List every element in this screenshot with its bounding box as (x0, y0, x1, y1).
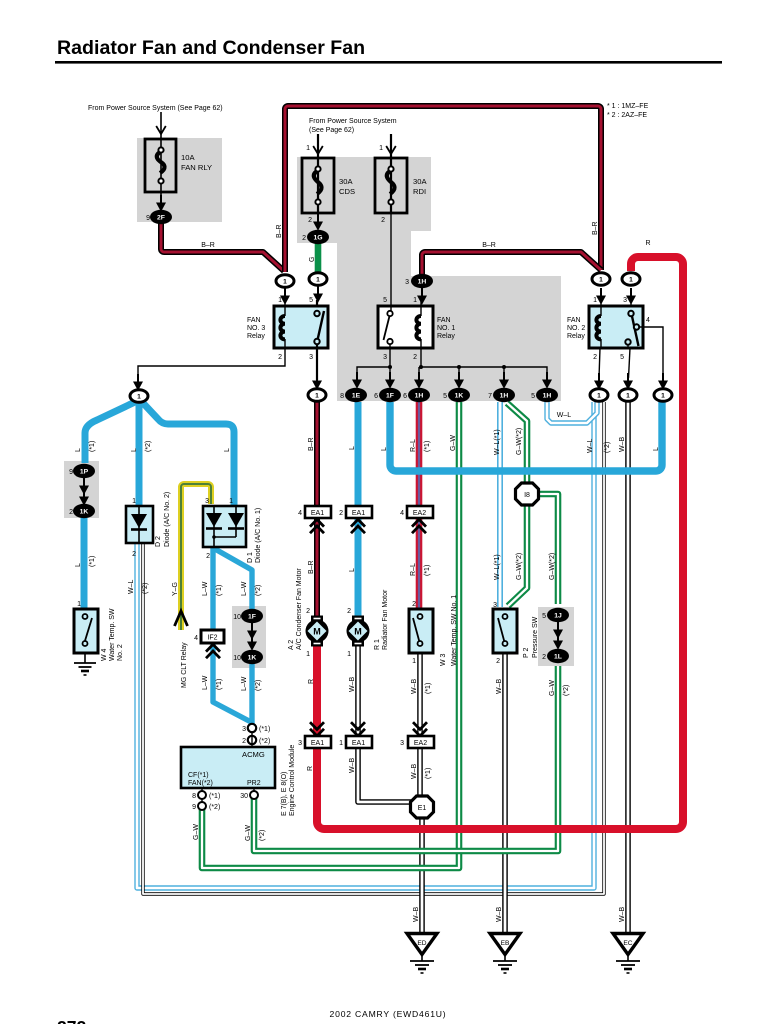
wire: FAN NO.3 pin3 down (312, 348, 322, 390)
shaded block: fuse/relay harness area (297, 157, 561, 401)
svg-text:G–W(*2): G–W(*2) (516, 428, 523, 455)
svg-text:No. 2: No. 2 (117, 644, 124, 661)
ground EB (490, 934, 520, 974)
svg-text:4: 4 (400, 510, 404, 517)
svg-text:RDI: RDI (413, 187, 426, 196)
diode D1 (A/C No.1) (203, 506, 246, 547)
connector 1K pin5 (448, 388, 470, 402)
wire: FAN NO.1 pin2 branch to 1H/1K/1H/1H (414, 348, 552, 389)
svg-text:R: R (307, 766, 314, 771)
rotated component names (101, 492, 539, 816)
svg-text:2: 2 (412, 601, 416, 608)
svg-text:10: 10 (233, 655, 241, 662)
svg-text:W–L: W–L (557, 412, 572, 419)
svg-text:W–B: W–B (349, 758, 356, 774)
connector 1H pin5 (536, 388, 558, 402)
svg-text:Relay: Relay (437, 333, 455, 340)
junction I8 (516, 483, 539, 505)
svg-text:(*2): (*2) (209, 804, 220, 811)
wire W-L (*2) loop: FAN NO.2 relay pin2 to diode D2 (137, 402, 604, 894)
svg-text:1: 1 (137, 394, 141, 401)
svg-text:(*1): (*1) (425, 683, 432, 694)
wire L-W (*1): diode D1 via IF2 to ACMG pin3 (213, 546, 251, 722)
wire L (*2 branch): node to diode D2 (136, 401, 143, 506)
svg-text:3: 3 (623, 297, 627, 304)
svg-text:L–W: L–W (202, 581, 209, 596)
wire G-W: connector 1K to ACMG pins 8/9 (202, 402, 459, 868)
svg-text:3: 3 (493, 602, 497, 609)
svg-text:1: 1 (413, 297, 417, 304)
fuse 30A CDS (302, 158, 334, 214)
svg-text:D 2: D 2 (155, 536, 162, 547)
switch W3 water temp SW no.1 (409, 609, 433, 653)
svg-text:W–L: W–L (128, 580, 135, 595)
svg-text:NO. 1: NO. 1 (437, 325, 455, 332)
svg-text:G–W(*2): G–W(*2) (516, 553, 523, 580)
svg-text:W–B: W–B (619, 437, 626, 453)
svg-text:1: 1 (597, 393, 601, 400)
svg-text:Radiator Fan Motor: Radiator Fan Motor (382, 589, 389, 650)
svg-text:(*2): (*2) (259, 830, 266, 841)
svg-text:R–L: R–L (410, 563, 417, 576)
svg-text:A/C Condenser Fan Motor: A/C Condenser Fan Motor (296, 568, 303, 650)
connector EA1 pin1 (bottom) (346, 722, 372, 748)
svg-text:EA1: EA1 (352, 740, 365, 747)
svg-text:Radiator Fan and Condenser Fan: Radiator Fan and Condenser Fan (57, 37, 365, 59)
connector pair 1P/1K (73, 464, 95, 518)
svg-text:1: 1 (629, 277, 633, 284)
svg-text:G–W: G–W (193, 824, 200, 840)
svg-text:D 1: D 1 (247, 552, 254, 563)
svg-text:(*2): (*2) (145, 441, 152, 452)
svg-text:1: 1 (229, 498, 233, 505)
diode D2 (A/C No.2) (126, 506, 153, 543)
svg-text:30A: 30A (339, 177, 353, 186)
wire L: node to diode D1 pin1 (143, 403, 234, 506)
connector 1F (379, 388, 401, 402)
connector EA2 pin3 (bottom) (408, 722, 434, 748)
svg-text:1L: 1L (554, 654, 562, 661)
svg-text:* 2 : 2AZ–FE: * 2 : 2AZ–FE (607, 112, 647, 119)
svg-text:Pressure SW: Pressure SW (532, 616, 539, 658)
svg-text:6: 6 (403, 393, 407, 400)
wire Y-G: MG CLT relay to diode D1 pin3 (181, 484, 211, 630)
svg-text:1: 1 (661, 393, 665, 400)
svg-text:1: 1 (379, 145, 383, 152)
svg-text:L: L (131, 448, 138, 452)
svg-text:I8: I8 (524, 492, 530, 499)
svg-text:(*2): (*2) (142, 583, 149, 594)
svg-text:1: 1 (339, 740, 343, 747)
svg-text:FAN: FAN (567, 317, 581, 324)
svg-text:Water Temp. SW: Water Temp. SW (109, 608, 116, 661)
svg-text:CDS: CDS (339, 187, 355, 196)
svg-text:(*1): (*1) (259, 726, 270, 733)
svg-text:W–B: W–B (496, 679, 503, 695)
svg-text:L: L (381, 447, 388, 451)
svg-text:4: 4 (194, 635, 198, 642)
svg-text:Water Temp. SW No. 1: Water Temp. SW No. 1 (451, 595, 458, 666)
svg-text:G–W: G–W (245, 825, 252, 841)
connector 1H pin7 (493, 388, 515, 402)
svg-text:1H: 1H (543, 393, 552, 400)
rotated wire labels (75, 221, 660, 922)
svg-text:B–R: B–R (201, 242, 215, 249)
svg-text:2: 2 (132, 551, 136, 558)
svg-text:5: 5 (531, 393, 535, 400)
svg-text:W–L(*1): W–L(*1) (494, 554, 501, 580)
wire B-R: fuse 10A FAN RLY to FAN NO.3 relay pin1 (161, 222, 284, 271)
annotation arrow: MG CLT relay (175, 611, 188, 626)
svg-text:10: 10 (233, 614, 241, 621)
svg-text:R: R (308, 679, 315, 684)
svg-text:1E: 1E (352, 393, 361, 400)
svg-text:(*2): (*2) (604, 442, 611, 453)
svg-text:2: 2 (306, 608, 310, 615)
svg-text:3: 3 (205, 498, 209, 505)
wire B-R: FAN NO.3 pin3 to A/C condenser fan motor (314, 402, 320, 616)
wire W-L (*1): connector 1H to pressure SW pin3 (497, 402, 503, 607)
svg-text:2: 2 (302, 235, 306, 242)
wire W-B: radiator fan motor to E1 (358, 643, 411, 802)
svg-text:2: 2 (542, 654, 546, 661)
svg-text:1: 1 (347, 651, 351, 658)
svg-text:1J: 1J (554, 613, 562, 620)
svg-text:W 3: W 3 (440, 653, 447, 666)
svg-text:PR2: PR2 (247, 780, 261, 787)
wire W-B: E1 to ground ED (419, 818, 425, 934)
wire B-R: branch to FAN NO.1 relay pin1 (422, 252, 601, 274)
connector 1H pin3 (FAN NO.1 pin1) (411, 274, 433, 305)
svg-text:L: L (75, 448, 82, 452)
wires: FAN NO.2 pins 2,5 down (594, 348, 633, 390)
node: FAN NO.3 pin5 connector (309, 273, 327, 303)
node: FAN NO.2 pin3 connector (622, 273, 640, 305)
svg-text:R: R (645, 240, 650, 247)
connector pair 1J/1L (547, 608, 569, 663)
svg-text:1H: 1H (415, 393, 424, 400)
svg-text:From Power Source System (See: From Power Source System (See Page 62) (88, 105, 223, 112)
ECU ACMG block (181, 724, 275, 810)
node: FAN NO.2 pin2 output (590, 389, 608, 402)
shaded block: connector 1P/1K (64, 461, 99, 518)
svg-text:4: 4 (646, 317, 650, 324)
wire: FAN NO.3 pin2 to L node (133, 348, 285, 391)
wire G: fuse 30A CDS to FAN NO.3 relay pin5 (315, 243, 322, 272)
svg-text:NO. 2: NO. 2 (567, 325, 585, 332)
motor A2 A/C condenser fan (306, 616, 329, 647)
junction E1 (411, 796, 434, 818)
svg-text:(*1): (*1) (424, 565, 431, 576)
svg-text:E 7(B), E 8(O): E 7(B), E 8(O) (281, 772, 288, 816)
svg-text:1K: 1K (80, 509, 89, 516)
svg-text:G–W: G–W (549, 680, 556, 696)
svg-text:B–R: B–R (276, 224, 283, 238)
svg-text:(*2): (*2) (255, 680, 262, 691)
wire R-L (*1): connector 1H to water temp SW no.1 (416, 402, 423, 608)
svg-text:272: 272 (57, 1017, 86, 1024)
power feed wire into 30A RDI (386, 134, 396, 158)
svg-text:2: 2 (308, 217, 312, 224)
svg-text:B–R: B–R (482, 242, 496, 249)
power feed wire into 10A FAN RLY (156, 112, 166, 139)
svg-text:1P: 1P (80, 469, 89, 476)
wire W-B: FAN NO.2 relay pin5 to ground EC (625, 402, 631, 934)
svg-text:3: 3 (242, 726, 246, 733)
title rule (55, 61, 722, 64)
connector EA1 pin3 (bottom) (305, 722, 331, 748)
svg-text:6: 6 (374, 393, 378, 400)
svg-text:ACMG: ACMG (242, 750, 265, 759)
svg-text:5: 5 (620, 354, 624, 361)
connector pair 1F/1K (10/10) (241, 609, 263, 664)
wire G-W (*2): I8 junction to pressure SW pin3 (508, 504, 527, 606)
switch W4 water temp SW no.2 (74, 609, 98, 653)
svg-text:(*1): (*1) (89, 441, 96, 452)
svg-text:2: 2 (206, 553, 210, 560)
svg-text:1: 1 (593, 297, 597, 304)
svg-text:EC: EC (623, 940, 632, 947)
svg-text:1F: 1F (248, 614, 256, 621)
connector 1H pin6 (408, 388, 430, 402)
relay FAN NO.2 (589, 300, 643, 348)
svg-text:8: 8 (192, 793, 196, 800)
svg-text:G–W: G–W (450, 435, 457, 451)
svg-text:EA1: EA1 (311, 740, 324, 747)
svg-text:1G: 1G (313, 235, 322, 242)
svg-text:EA1: EA1 (352, 510, 365, 517)
svg-text:EA2: EA2 (413, 510, 426, 517)
svg-text:1: 1 (283, 279, 287, 286)
svg-text:3: 3 (298, 740, 302, 747)
svg-text:L–W: L–W (202, 675, 209, 690)
svg-text:W–B: W–B (411, 679, 418, 695)
svg-text:1: 1 (306, 651, 310, 658)
connector EA1 pin4 (305, 506, 331, 533)
svg-text:3: 3 (405, 279, 409, 286)
svg-text:2: 2 (413, 354, 417, 361)
svg-text:1: 1 (315, 393, 319, 400)
svg-text:W–B: W–B (496, 907, 503, 923)
svg-text:1: 1 (599, 277, 603, 284)
svg-text:Engine Control Module: Engine Control Module (289, 745, 296, 816)
pin number labels (69, 145, 650, 811)
svg-text:Diode (A/C No. 2): Diode (A/C No. 2) (164, 492, 171, 547)
connector EA2 pin4 (407, 506, 433, 533)
svg-text:EA2: EA2 (414, 740, 427, 747)
svg-text:ED: ED (417, 940, 426, 947)
connector 1E (345, 388, 367, 402)
wire L: connector 1F to FAN NO.2 relay pin4 (390, 402, 662, 471)
svg-text:1F: 1F (386, 393, 394, 400)
svg-text:W–B: W–B (411, 764, 418, 780)
svg-text:2: 2 (496, 658, 500, 665)
ground EC (613, 934, 643, 974)
svg-text:1: 1 (412, 658, 416, 665)
ground: W4 case ground (74, 653, 96, 675)
fuse 30A RDI (375, 158, 407, 214)
svg-text:(*2): (*2) (563, 685, 570, 696)
switch P2 pressure SW (493, 609, 517, 653)
svg-text:Relay: Relay (247, 333, 265, 340)
relay FAN NO.3 (274, 300, 328, 348)
svg-text:Relay: Relay (567, 333, 585, 340)
svg-text:L: L (653, 447, 660, 451)
svg-text:W–B: W–B (413, 907, 420, 923)
svg-text:(*2): (*2) (259, 738, 270, 745)
connector EA1 pin2 (346, 506, 372, 533)
svg-text:5: 5 (443, 393, 447, 400)
node: FAN NO.2 pin5 output (619, 389, 637, 402)
svg-text:M: M (313, 627, 321, 637)
svg-text:L–W: L–W (241, 581, 248, 596)
svg-text:EA1: EA1 (311, 510, 324, 517)
svg-text:7: 7 (488, 393, 492, 400)
connector IF2 (201, 630, 224, 658)
svg-text:W 4: W 4 (101, 648, 108, 661)
ground ED (407, 934, 437, 974)
horizontal wire labels (201, 240, 650, 419)
svg-text:EB: EB (501, 940, 510, 947)
svg-text:B–R: B–R (308, 560, 315, 574)
svg-text:3: 3 (400, 740, 404, 747)
wire G-W (*2): I8 junction via 1J/1L to ACMG pin30 (254, 494, 558, 851)
svg-text:2: 2 (242, 738, 246, 745)
svg-text:L: L (349, 446, 356, 450)
wire L: connector 1E to radiator fan motor (355, 402, 362, 616)
svg-text:M: M (354, 627, 362, 637)
wire W-L: connector 1H to FAN NO.2 relay pin2 (547, 401, 597, 423)
svg-text:(*1): (*1) (216, 679, 223, 690)
svg-text:R–L: R–L (410, 439, 417, 452)
svg-text:(*1): (*1) (425, 768, 432, 779)
svg-text:FAN(*2): FAN(*2) (188, 780, 213, 787)
node: FAN NO.3 pin3 output (308, 389, 326, 402)
svg-text:2: 2 (347, 608, 351, 615)
svg-text:MG CLT Relay: MG CLT Relay (181, 642, 188, 688)
svg-text:R 1: R 1 (374, 639, 381, 650)
wire: FAN NO.2 pin4 (639, 327, 668, 390)
svg-text:B–R: B–R (592, 221, 599, 235)
text annotations (57, 103, 649, 1024)
svg-text:5: 5 (542, 613, 546, 620)
svg-text:2F: 2F (157, 215, 165, 222)
svg-text:A 2: A 2 (288, 640, 295, 650)
svg-text:1: 1 (278, 297, 282, 304)
svg-text:L: L (224, 448, 231, 452)
svg-text:9: 9 (192, 804, 196, 811)
svg-text:1K: 1K (248, 655, 257, 662)
shaded block: 10A FAN RLY fuse area (137, 138, 222, 222)
svg-text:P 2: P 2 (523, 648, 530, 658)
node: FAN NO.2 pin1 connector (592, 273, 610, 305)
wire W-B: pressure SW to ground EB (502, 654, 508, 934)
svg-text:Y–G: Y–G (172, 582, 179, 596)
svg-text:G: G (309, 257, 316, 262)
svg-text:1: 1 (77, 601, 81, 608)
svg-text:* 1 : 1MZ–FE: * 1 : 1MZ–FE (607, 103, 649, 110)
svg-text:2: 2 (381, 217, 385, 224)
svg-text:1: 1 (316, 277, 320, 284)
svg-text:W–B: W–B (619, 907, 626, 923)
svg-text:G–W(*2): G–W(*2) (549, 553, 556, 580)
shaded block: connector 1F/1K (232, 606, 266, 668)
svg-text:1K: 1K (455, 393, 464, 400)
svg-text:2: 2 (278, 354, 282, 361)
svg-text:30: 30 (240, 793, 248, 800)
wire B-R: trunk to FAN NO.2 relay pin1 (285, 106, 601, 272)
svg-text:Diode (A/C No. 1): Diode (A/C No. 1) (255, 508, 262, 563)
svg-text:9: 9 (69, 469, 73, 476)
svg-text:2: 2 (69, 509, 73, 516)
svg-text:4: 4 (298, 510, 302, 517)
connector 2F (150, 195, 172, 224)
wire G-W (*2): connector 1H to I8 junction (507, 403, 527, 485)
wire L-W (*2): diode D1 via 1F/1K to ACMG pin2 (215, 549, 252, 610)
svg-text:5: 5 (309, 297, 313, 304)
svg-text:2: 2 (593, 354, 597, 361)
svg-text:CF(*1): CF(*1) (188, 772, 209, 779)
svg-text:2002 CAMRY (EWD461U): 2002 CAMRY (EWD461U) (330, 1009, 447, 1019)
svg-text:(See Page 62): (See Page 62) (309, 127, 354, 134)
svg-text:2: 2 (339, 510, 343, 517)
relay FAN NO.1 (378, 213, 433, 348)
svg-text:L: L (75, 563, 82, 567)
wire: FAN NO.1 pin3 branch to 1E and 1F (352, 348, 395, 389)
svg-text:E1: E1 (418, 805, 427, 812)
svg-text:5: 5 (383, 297, 387, 304)
wire R: A/C condenser fan motor to FAN NO.2 relay pin3 (317, 257, 683, 829)
node: FAN NO.2 pin4 output (654, 389, 672, 402)
svg-text:3: 3 (383, 354, 387, 361)
svg-text:1: 1 (306, 145, 310, 152)
svg-text:3: 3 (309, 354, 313, 361)
svg-text:(*1): (*1) (216, 585, 223, 596)
connector 1G (307, 214, 329, 244)
svg-text:1: 1 (132, 498, 136, 505)
svg-text:8: 8 (340, 393, 344, 400)
svg-text:L–W: L–W (241, 676, 248, 691)
motor R1 radiator fan (347, 616, 370, 647)
svg-text:FAN RLY: FAN RLY (181, 163, 212, 172)
svg-text:W–L(*1): W–L(*1) (494, 429, 501, 455)
svg-text:(*2): (*2) (255, 585, 262, 596)
svg-text:(*1): (*1) (89, 556, 96, 567)
fuse 10A FAN RLY (145, 139, 176, 202)
svg-text:NO. 3: NO. 3 (247, 325, 265, 332)
svg-text:FAN: FAN (437, 317, 451, 324)
power feed wire into 30A CDS (313, 134, 323, 158)
svg-text:1: 1 (626, 393, 630, 400)
svg-text:L: L (349, 568, 356, 572)
wire L: FAN NO.3 pin2 node to water temp SW no.2 (*1 branch) (84, 401, 234, 610)
svg-text:W–B: W–B (349, 677, 356, 693)
svg-text:1H: 1H (500, 393, 509, 400)
svg-text:(*1): (*1) (424, 441, 431, 452)
wire W-B (*1): water temp SW no.1 to E1 (417, 654, 423, 798)
node: FAN NO.3 pin1 connector (276, 275, 294, 305)
node: L distribution (130, 390, 148, 403)
svg-text:From Power Source System: From Power Source System (309, 118, 397, 125)
svg-text:W–L: W–L (587, 439, 594, 454)
svg-text:9: 9 (146, 215, 150, 222)
svg-text:30A: 30A (413, 177, 427, 186)
svg-text:1H: 1H (418, 279, 427, 286)
svg-text:IF2: IF2 (207, 635, 217, 642)
svg-text:FAN: FAN (247, 317, 261, 324)
svg-text:B–R: B–R (308, 437, 315, 451)
svg-text:10A: 10A (181, 153, 195, 162)
